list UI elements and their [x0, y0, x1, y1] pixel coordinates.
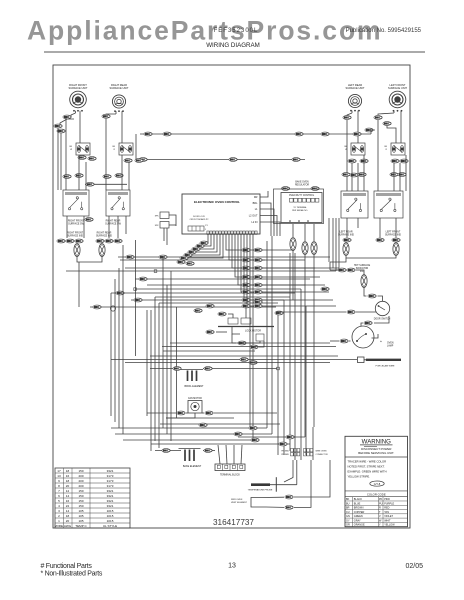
diagram border frame	[53, 65, 410, 528]
connector ind i	[392, 238, 400, 242]
svg-text:PURPLE: PURPLE	[384, 502, 394, 505]
indicator lamp left-rear	[343, 243, 349, 256]
svg-text:316417737: 316417737	[213, 518, 254, 527]
wire right bundle x329	[328, 218, 330, 262]
svg-text:SURFACE IND: SURFACE IND	[338, 234, 354, 237]
svg-text:L1: L1	[255, 208, 258, 211]
wire lamp feed down	[78, 262, 80, 307]
connector ind d	[96, 239, 104, 243]
surface switch box B4 left-front	[374, 191, 403, 218]
svg-text:OR: OR	[346, 524, 350, 527]
wire vertical bundle left x163	[162, 257, 164, 428]
svg-text:105: 105	[78, 509, 83, 513]
connector below SU3	[343, 116, 351, 120]
connector bottom y451	[204, 449, 212, 453]
connector below S4 b	[400, 159, 408, 163]
svg-text:*: *	[380, 340, 382, 345]
connector door feed	[368, 294, 376, 298]
switch box S1 right-front	[76, 143, 90, 155]
wire bottom h y425	[160, 423, 280, 425]
wire EOC pin left fan 6	[188, 235, 223, 259]
svg-text:ELECTRONIC OVEN CONTROL: ELECTRONIC OVEN CONTROL	[194, 200, 240, 204]
switch box S4 left-front	[391, 143, 405, 155]
connector EOC left fan 2	[196, 244, 204, 248]
connector on L2 bus b	[229, 158, 237, 162]
connector mid y307	[93, 305, 101, 309]
svg-text:13: 13	[57, 474, 61, 478]
svg-text:14: 14	[66, 509, 70, 513]
svg-text:3: 3	[58, 509, 60, 513]
wire left supply drop	[57, 128, 59, 190]
junction square broil	[277, 367, 280, 370]
wire S2 drops	[121, 155, 123, 190]
connector lock c	[250, 345, 258, 349]
connector EOC right fan 1a	[242, 248, 250, 252]
fuse capsule F3	[311, 242, 317, 255]
svg-text:BK: BK	[112, 146, 115, 148]
svg-text:SURFACE UNIT: SURFACE UNIT	[388, 86, 407, 90]
wire vertical x135.5	[135, 240, 137, 356]
wire vertical bundle left x119	[118, 268, 120, 428]
fuse capsule F1	[290, 238, 296, 251]
wire lamps join	[346, 256, 396, 259]
wire vertical bundle left x151	[150, 310, 152, 451]
connector EOC right fan 8a	[242, 304, 250, 308]
wire F1 down	[292, 251, 294, 301]
wire vertical bundle right x295	[294, 253, 296, 460]
connector EOC right fan 2b	[254, 258, 262, 262]
connector EOC right fan 5b	[254, 283, 262, 287]
connector row y174 b	[350, 173, 358, 177]
svg-text:GREEN: GREEN	[354, 515, 363, 518]
svg-text:R: R	[379, 507, 381, 510]
svg-text:CIRCUIT BOARD P2: CIRCUIT BOARD P2	[190, 218, 210, 221]
svg-text:SURFACE IND: SURFACE IND	[67, 235, 83, 238]
wire right bundle x336	[335, 218, 337, 271]
wire bottom h y428	[111, 427, 267, 429]
connector below S4	[391, 159, 399, 163]
svg-text:V: V	[379, 515, 381, 518]
svg-text:WARNING: WARNING	[362, 438, 391, 445]
connector monitor left	[281, 187, 289, 191]
wire lock wiring	[216, 331, 227, 333]
svg-text:200: 200	[78, 474, 83, 478]
wire EOC pin right fan 7	[244, 235, 333, 301]
svg-text:1: 1	[205, 229, 207, 231]
connector SU4 feed	[365, 128, 373, 132]
svg-text:DR: DR	[254, 196, 258, 199]
connector broil left	[173, 367, 181, 371]
connector on L2 bus	[139, 158, 147, 162]
svg-text:Publication No. 5995429155: Publication No. 5995429155	[346, 28, 422, 34]
wire vertical bundle right x301	[300, 289, 302, 460]
wire broil row	[150, 368, 181, 370]
wire EOC pin drop 16	[252, 235, 254, 441]
surface unit SU3 left-rear	[348, 94, 361, 107]
wire door feed	[272, 306, 276, 308]
wire h y359.5	[111, 359, 357, 361]
connector row y174 d	[390, 173, 398, 177]
wire vertical bundle left x147	[146, 310, 148, 416]
svg-text:WHIT: WHIT	[384, 519, 391, 522]
svg-text:WIRE: WIRE	[55, 524, 63, 528]
door switch SW1	[375, 301, 389, 315]
connector EOC left fan 6	[180, 256, 188, 260]
wire right top drop x330	[329, 262, 331, 270]
wire vertical bundle right x272	[271, 236, 273, 434]
wire mid h y303	[159, 302, 278, 304]
connector EOC right fan 7a	[242, 298, 250, 302]
svg-text:CU: CU	[346, 511, 350, 514]
connector below S1 b	[88, 157, 96, 161]
wire SU3 stems	[351, 111, 353, 113]
connector hot-surface b	[347, 268, 355, 272]
svg-text:TAN: TAN	[384, 511, 389, 514]
svg-text:FEF352300L: FEF352300L	[214, 28, 259, 34]
connector left supply	[54, 124, 62, 128]
surface switch box B2 right-rear	[106, 190, 130, 216]
junction square b	[134, 288, 137, 291]
connector x199 y310	[194, 309, 202, 313]
svg-text:G/Y-8: G/Y-8	[374, 482, 381, 486]
svg-text:13: 13	[228, 563, 236, 570]
connector broil right	[204, 367, 212, 371]
connector on L1 bus e	[353, 132, 361, 136]
svg-text:SURFACE IND: SURFACE IND	[96, 235, 112, 238]
wire vertical bundle left x115	[114, 279, 116, 422]
junction square a	[154, 270, 157, 273]
connector ind e	[105, 239, 113, 243]
svg-text:3321: 3321	[107, 504, 114, 508]
svg-text:SURFACE UNIT: SURFACE UNIT	[109, 86, 128, 90]
connector below S3 b	[360, 159, 368, 163]
connector bottom y437	[286, 435, 294, 439]
svg-text:BU: BU	[346, 502, 350, 505]
svg-text:L2 OUT: L2 OUT	[249, 215, 258, 218]
porcelain wire bar	[366, 359, 401, 361]
connector hot-surface a	[338, 268, 346, 272]
wire lamp drops	[77, 257, 102, 263]
connector row y176 left c	[103, 175, 111, 179]
svg-text:YELLOW STRIPE.: YELLOW STRIPE.	[348, 474, 371, 478]
wire fan box drop	[166, 413, 195, 418]
connector fan right	[205, 411, 213, 415]
wire right bundle x333	[332, 218, 334, 268]
temperature probe	[251, 483, 270, 486]
svg-text:150: 150	[78, 469, 83, 473]
svg-text:P1: P1	[205, 225, 208, 227]
wire EOC pin right fan 4	[235, 235, 320, 278]
svg-text:OVEN DUTY CONTROL: OVEN DUTY CONTROL	[289, 195, 315, 197]
wire lamp feed left	[330, 258, 346, 262]
wire vertical bundle right x278	[277, 313, 279, 455]
wire vertical bundle left x171	[170, 271, 172, 441]
svg-text:8: 8	[58, 484, 60, 488]
svg-text:CONNECTOR: CONNECTOR	[316, 454, 329, 456]
connector EOC right fan 8b	[254, 304, 262, 308]
wire vertical bundle left x111	[110, 293, 112, 416]
svg-text:Y: Y	[379, 524, 381, 527]
svg-text:LOCK MOTOR: LOCK MOTOR	[245, 330, 261, 333]
wire gauge table	[55, 468, 130, 528]
wire mid h y260	[120, 259, 265, 261]
svg-text:L2 IN: L2 IN	[252, 221, 258, 224]
electronic oven control box U1	[182, 194, 260, 234]
wire EOC L2OUT out	[260, 216, 277, 237]
wire F3 down	[313, 255, 315, 428]
svg-text:NOTED FIRST, STRIPE NEXT.: NOTED FIRST, STRIPE NEXT.	[348, 464, 385, 468]
svg-text:W: W	[70, 149, 72, 151]
wire vertical bundle left x159	[158, 303, 160, 448]
svg-text:DOOR SWITCH: DOOR SWITCH	[374, 319, 391, 321]
svg-text:3321: 3321	[107, 469, 114, 473]
wire lock feed top	[228, 314, 233, 318]
connector fan left	[177, 411, 185, 415]
connector EOC right fan 5a	[242, 283, 250, 287]
svg-text:2: 2	[58, 514, 60, 518]
svg-text:GY: GY	[346, 519, 350, 522]
wire mid h y285	[147, 284, 305, 286]
svg-text:T: T	[379, 511, 381, 514]
wire vertical bundle left x155	[154, 297, 156, 441]
svg-text:TRACER WIRE - WIRE COLOR: TRACER WIRE - WIRE COLOR	[348, 460, 387, 464]
connector EOC left fan 4	[188, 250, 196, 254]
svg-text:TO TERMINAL: TO TERMINAL	[293, 206, 307, 209]
terminal dots under surface unit	[350, 110, 352, 112]
wire mid h y271	[66, 270, 336, 272]
connector below SU4	[374, 116, 382, 120]
svg-text:150: 150	[78, 494, 83, 498]
wire h y351	[163, 350, 255, 352]
connector lock b	[238, 341, 246, 345]
connector door b	[364, 321, 372, 325]
svg-text:HOT SURFACE: HOT SURFACE	[354, 264, 371, 267]
bake element HE2	[179, 449, 201, 461]
wire EOC pin right fan 5	[238, 235, 325, 286]
connector below S1	[78, 156, 86, 160]
wire bus drop	[135, 134, 137, 160]
indicator lamp left-front	[393, 243, 399, 256]
broil element HE1	[181, 370, 203, 381]
connector x258 y302	[254, 300, 262, 304]
wire mid h y257	[118, 256, 330, 258]
wire EOC L2IN out	[260, 222, 280, 236]
connector ind a	[57, 239, 65, 243]
svg-text:W: W	[379, 519, 382, 522]
svg-text:ORANGE: ORANGE	[354, 524, 365, 527]
connector x222 y314	[218, 312, 226, 316]
wire vertical bundle left x167	[166, 285, 168, 434]
connector lamp feed	[340, 339, 348, 343]
oven duty control outer box	[274, 189, 324, 224]
wire hot surface feed	[330, 269, 339, 271]
svg-text:PK: PK	[379, 498, 383, 501]
connector ind c	[75, 239, 83, 243]
connector mid y257 a	[126, 255, 134, 259]
svg-text:14: 14	[66, 494, 70, 498]
oven duty control box U2	[281, 193, 322, 223]
svg-text:PIN BKD: PIN BKD	[281, 454, 289, 456]
oven vent element	[251, 498, 266, 508]
svg-text:BK: BK	[346, 498, 350, 501]
svg-text:TERMINAL BLOCK: TERMINAL BLOCK	[220, 474, 240, 477]
wire door drop	[378, 296, 383, 301]
svg-text:BEFORE SERVICING UNIT.: BEFORE SERVICING UNIT.	[358, 451, 394, 455]
wire S3 drops	[351, 163, 353, 191]
dark connector between switch boxes	[85, 218, 93, 222]
connector bottom y428	[249, 426, 257, 430]
connector ind b	[66, 239, 74, 243]
wire door to lamp	[374, 316, 389, 323]
wire EOC pin left fan 2	[204, 235, 211, 247]
wire vertical bundle right x290	[289, 253, 291, 451]
connector vent a	[285, 495, 293, 499]
connector x210 y306	[206, 304, 214, 308]
connector EOC right fan 2a	[242, 258, 250, 262]
pin board connector grid 2	[304, 449, 307, 452]
svg-text:EXAMPLE: GREEN WIRE WITH: EXAMPLE: GREEN WIRE WITH	[348, 469, 387, 473]
connector on L1 bus d	[321, 132, 329, 136]
wire h y346	[162, 346, 336, 348]
indicator lamp right-front	[74, 244, 80, 257]
svg-text:3321: 3321	[107, 489, 114, 493]
hot surface indicator lamp	[361, 275, 367, 288]
wire B2 bottom stub	[108, 216, 110, 238]
wire EOC pin left fan 5	[192, 235, 220, 256]
bus wire L2 top	[136, 159, 305, 161]
wire B1 bottom stub	[66, 216, 68, 238]
connector on L1 bus	[144, 132, 152, 136]
svg-text:GRAY: GRAY	[354, 519, 361, 522]
connector vent b	[285, 506, 293, 510]
wire vertical bundle right x284	[283, 300, 285, 455]
svg-text:3173: 3173	[107, 474, 114, 478]
svg-text:AppliancePartsPros.com: AppliancePartsPros.com	[27, 16, 383, 46]
oven lamp L1	[352, 326, 374, 348]
terminal dots under surface unit	[114, 110, 116, 112]
svg-text:SURFACE IND: SURFACE IND	[385, 234, 401, 237]
ODC relay row	[290, 198, 294, 202]
svg-text:COLOR CODE: COLOR CODE	[367, 492, 386, 496]
connector EOC right fan 6a	[242, 290, 250, 294]
svg-text:TEMPERATURE PROBE: TEMPERATURE PROBE	[248, 488, 273, 491]
wire vertical bundle left x123	[122, 245, 124, 434]
svg-text:AWG: AWG	[64, 524, 72, 528]
wire right bundle x339	[338, 218, 340, 268]
fan motor M1	[188, 401, 202, 414]
TOD box upper	[160, 212, 169, 219]
svg-text:BAKE ELEMENT: BAKE ELEMENT	[183, 465, 202, 468]
connector mid y257 b	[159, 255, 167, 259]
lock motor bar	[218, 326, 274, 328]
svg-text:1015: 1015	[107, 509, 114, 513]
terminal dots under surface unit	[393, 110, 395, 112]
svg-text:BK: BK	[69, 146, 72, 148]
wire bottom h y444	[151, 443, 290, 445]
connector row y174 a	[342, 173, 350, 177]
surface unit SU1 right-front	[70, 91, 87, 108]
svg-text:5: 5	[58, 499, 60, 503]
surface switch box B3 left-rear	[341, 191, 368, 218]
svg-text:BROIL ELEMENT: BROIL ELEMENT	[184, 385, 204, 388]
wire B3 drop	[346, 218, 348, 238]
lock motor switch arm	[232, 327, 240, 335]
terminal block TB1	[215, 464, 245, 471]
wire L1 drop right	[371, 130, 375, 134]
svg-text:4: 4	[58, 504, 60, 508]
connector EOC right fan 7b	[254, 298, 262, 302]
svg-text:BK: BK	[384, 146, 387, 148]
svg-text:3173: 3173	[107, 479, 114, 483]
wire h y184 left	[85, 183, 127, 185]
wire bottom h y418	[166, 417, 234, 419]
svg-text:PER SERIAL NO.: PER SERIAL NO.	[292, 209, 308, 212]
connector y362 b	[249, 361, 257, 365]
svg-text:BRL: BRL	[253, 202, 258, 205]
wire SU1 aux drop	[65, 118, 67, 190]
wire mid h y268	[125, 267, 339, 269]
svg-text:RED: RED	[384, 507, 389, 510]
lock motor box b	[241, 318, 251, 324]
wire mid h y307	[90, 306, 272, 308]
svg-text:1015: 1015	[107, 519, 114, 523]
switch box S3 left-rear	[351, 143, 365, 155]
svg-text:18: 18	[66, 514, 70, 518]
svg-text:SPK: SPK	[155, 216, 160, 218]
connector on L2 bus c	[292, 158, 300, 162]
surface switch box B1 right-front	[63, 190, 89, 216]
connector row y176 left b	[75, 174, 83, 178]
connector EOC right fan 4a	[242, 275, 250, 279]
svg-text:VIOLET: VIOLET	[384, 515, 393, 518]
svg-text:BAKE OVEN: BAKE OVEN	[295, 180, 309, 183]
svg-text:18: 18	[66, 469, 70, 473]
fuse capsule F2	[302, 242, 308, 255]
wire ODC drop a	[292, 224, 294, 237]
svg-text:VENT ELEMENT: VENT ELEMENT	[231, 502, 248, 504]
junction circle mid	[110, 306, 115, 311]
connector fan-out extra b	[186, 262, 194, 266]
wire EOC pin right fan 3	[232, 235, 315, 269]
svg-text:# Functional Parts: # Functional Parts	[41, 563, 93, 570]
connector lock a	[206, 330, 214, 334]
svg-text:17: 17	[57, 469, 61, 473]
svg-text:OVEN: OVEN	[387, 343, 394, 345]
connector ind g	[343, 238, 351, 242]
connector EOC left fan 5	[184, 253, 192, 257]
connector row y176 left a	[63, 175, 71, 179]
wire vent out	[262, 496, 284, 498]
wire vertical bundle right x313	[312, 427, 314, 460]
wire ODC drop c	[313, 224, 315, 241]
svg-text:COPPER: COPPER	[354, 511, 365, 514]
connector EOC left fan 3	[192, 247, 200, 251]
svg-text:W: W	[345, 149, 347, 151]
svg-text:R: R	[386, 149, 388, 151]
wire bottom h y434	[115, 433, 272, 435]
wire lamp out	[372, 334, 379, 338]
wire lamp feed	[330, 340, 339, 342]
svg-text:GN: GN	[346, 515, 350, 518]
svg-text:20: 20	[66, 519, 70, 523]
wire mid h y300	[131, 299, 284, 301]
wire EOC pin right fan 6	[241, 235, 329, 293]
connector below S2	[124, 159, 132, 163]
wire TOD stubs	[169, 215, 176, 226]
wire vertical bundle right x267	[266, 241, 268, 428]
svg-text:SURFACE SW: SURFACE SW	[105, 223, 122, 226]
svg-text:1015: 1015	[107, 514, 114, 518]
